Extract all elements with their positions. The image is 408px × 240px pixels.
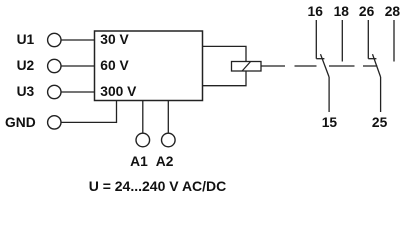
contact 26 foot bbox=[368, 58, 376, 60]
svg-text:18: 18 bbox=[334, 4, 350, 19]
terminal line 26 bbox=[367, 20, 369, 59]
svg-text:28: 28 bbox=[385, 4, 401, 19]
wire GND horizontal bbox=[61, 121, 116, 123]
wire U2 to box bbox=[61, 65, 94, 67]
coil diagonal stroke bbox=[242, 62, 251, 72]
wire A1 bbox=[142, 101, 144, 134]
power supply box U1 bbox=[95, 31, 203, 101]
actuation link dashed segments bbox=[295, 65, 378, 67]
wire box to coil bottom bbox=[203, 71, 247, 86]
svg-text:25: 25 bbox=[372, 115, 388, 130]
svg-text:300 V: 300 V bbox=[100, 84, 137, 99]
terminal line 28 bbox=[393, 20, 395, 62]
actuation link solid segment bbox=[261, 65, 285, 67]
terminal U3 bbox=[48, 85, 61, 98]
wire common 15 bbox=[328, 77, 330, 112]
terminal A2 bbox=[162, 133, 176, 147]
wire U3 to box bbox=[61, 91, 94, 93]
terminal GND bbox=[48, 116, 61, 129]
contact arm 15-16 bbox=[321, 54, 330, 77]
terminal U1 bbox=[48, 33, 61, 46]
svg-text:16: 16 bbox=[308, 4, 324, 19]
svg-text:U2: U2 bbox=[17, 58, 35, 73]
svg-text:A2: A2 bbox=[156, 154, 174, 169]
terminal A1 bbox=[136, 133, 150, 147]
relay coil K1 bbox=[232, 62, 262, 72]
svg-text:U = 24...240 V AC/DC: U = 24...240 V AC/DC bbox=[89, 178, 227, 194]
wire U1 to box bbox=[61, 39, 94, 41]
svg-text:26: 26 bbox=[359, 4, 375, 19]
svg-text:U3: U3 bbox=[17, 84, 35, 99]
wire A2 bbox=[167, 101, 169, 134]
wire common 25 bbox=[380, 77, 382, 112]
svg-text:30 V: 30 V bbox=[100, 32, 129, 47]
svg-text:60 V: 60 V bbox=[100, 58, 129, 73]
svg-text:U1: U1 bbox=[17, 32, 35, 47]
terminal line 18 bbox=[341, 20, 343, 62]
contact arm 25-26 bbox=[373, 54, 381, 77]
svg-text:15: 15 bbox=[322, 115, 338, 130]
svg-text:A1: A1 bbox=[130, 154, 148, 169]
wire GND vertical to box bbox=[116, 101, 118, 124]
wire box to coil top bbox=[203, 46, 247, 61]
contact 16 foot bbox=[316, 58, 324, 60]
svg-text:GND: GND bbox=[5, 115, 36, 130]
terminal U2 bbox=[48, 59, 61, 72]
terminal line 16 bbox=[315, 20, 317, 59]
